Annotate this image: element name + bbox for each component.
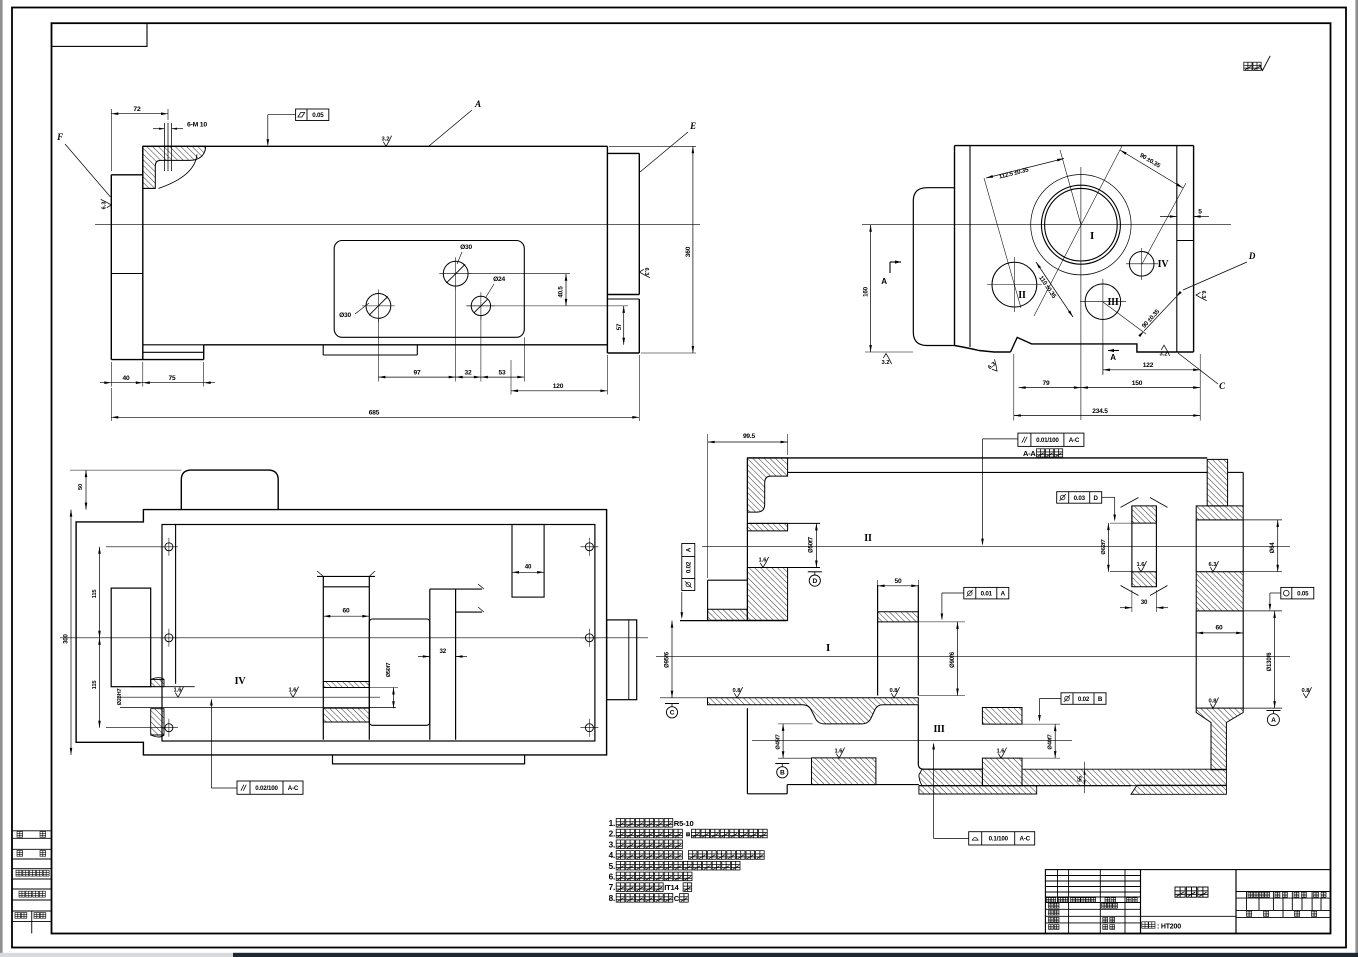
svg-text:Ø64: Ø64 (1270, 542, 1276, 554)
svg-text:8.: 8. (609, 894, 615, 903)
svg-text:1.: 1. (609, 819, 615, 828)
svg-text:Ø50f7: Ø50f7 (809, 536, 815, 553)
svg-text:A: A (1110, 353, 1116, 362)
svg-text:Ø45f7: Ø45f7 (776, 734, 782, 749)
svg-text:1.6: 1.6 (173, 687, 182, 693)
svg-text:0.03: 0.03 (1074, 495, 1086, 502)
svg-text:E: E (689, 121, 696, 131)
svg-text:32: 32 (465, 370, 472, 377)
svg-text:50: 50 (895, 578, 902, 585)
svg-text:40.5: 40.5 (558, 286, 565, 298)
svg-text:3.2: 3.2 (881, 360, 889, 366)
svg-text:6.3: 6.3 (1208, 562, 1217, 568)
svg-text:30: 30 (1141, 599, 1148, 606)
svg-text:6.3: 6.3 (643, 267, 649, 276)
svg-text:685: 685 (369, 410, 380, 417)
svg-text:150: 150 (1132, 380, 1143, 387)
svg-text:0.8: 0.8 (1208, 698, 1217, 704)
svg-text:40: 40 (525, 564, 532, 571)
svg-text:3.: 3. (609, 840, 615, 849)
svg-text:55: 55 (1078, 776, 1084, 782)
svg-text:7.: 7. (609, 883, 615, 892)
svg-text:F: F (56, 132, 63, 142)
svg-text:0.02: 0.02 (686, 561, 693, 573)
svg-text:0.02/100: 0.02/100 (255, 785, 278, 792)
svg-text:32: 32 (439, 648, 446, 655)
svg-text:Ø130f6: Ø130f6 (1267, 652, 1273, 672)
svg-text:1.6: 1.6 (834, 748, 843, 754)
svg-text:1.6: 1.6 (996, 748, 1005, 754)
svg-text:IT14: IT14 (664, 883, 679, 892)
svg-text:115: 115 (92, 589, 98, 599)
svg-text:Ø40f7: Ø40f7 (1048, 734, 1054, 749)
svg-text:A-A: A-A (1023, 449, 1036, 458)
svg-text:3.2: 3.2 (1159, 352, 1167, 358)
svg-text:0.05: 0.05 (312, 112, 324, 119)
svg-text:I: I (826, 642, 830, 654)
svg-text:53: 53 (499, 370, 506, 377)
svg-text:D: D (1248, 251, 1256, 261)
svg-text:2.: 2. (609, 830, 615, 839)
svg-text:300: 300 (64, 633, 70, 643)
svg-text:60: 60 (1216, 625, 1223, 632)
svg-text:72: 72 (133, 106, 141, 113)
svg-text:Ø28H7: Ø28H7 (117, 689, 123, 706)
svg-text:II: II (1018, 290, 1026, 301)
svg-text:Ø30: Ø30 (339, 312, 351, 319)
svg-text:III: III (933, 724, 944, 735)
svg-text:115: 115 (92, 680, 98, 690)
svg-text:A-C: A-C (1069, 437, 1080, 444)
svg-text:0.1/100: 0.1/100 (989, 836, 1009, 843)
svg-text:0.05: 0.05 (1297, 590, 1309, 597)
svg-text:0.02: 0.02 (1078, 696, 1090, 703)
svg-text:3.2: 3.2 (381, 137, 389, 143)
svg-text:6-M 10: 6-M 10 (187, 122, 207, 129)
svg-text:5: 5 (1198, 209, 1202, 216)
svg-text:97: 97 (414, 370, 421, 377)
svg-text:C: C (670, 710, 675, 717)
svg-text:6.3: 6.3 (1200, 290, 1206, 299)
svg-text:A-C: A-C (288, 785, 299, 792)
svg-text:A: A (474, 99, 481, 109)
svg-text:B: B (1098, 696, 1103, 703)
svg-text:360: 360 (685, 246, 692, 257)
svg-text:0.8: 0.8 (889, 688, 898, 694)
svg-text:C: C (674, 894, 680, 903)
svg-text:40: 40 (123, 375, 130, 382)
svg-text:5.: 5. (609, 862, 615, 871)
svg-text:II: II (864, 533, 872, 544)
svg-text:0.01: 0.01 (981, 590, 993, 597)
svg-text:6.: 6. (609, 873, 615, 882)
svg-text:0.01/100: 0.01/100 (1036, 437, 1059, 444)
svg-text:234.5: 234.5 (1092, 408, 1108, 415)
svg-text:A: A (1001, 590, 1006, 597)
svg-text:Ø62f7: Ø62f7 (1101, 539, 1107, 554)
svg-text:I: I (1090, 230, 1094, 242)
svg-text:Ø90f6: Ø90f6 (950, 651, 956, 668)
svg-text:1.6: 1.6 (1136, 562, 1145, 568)
svg-text:0.8: 0.8 (732, 688, 741, 694)
svg-text:122: 122 (1143, 362, 1154, 369)
svg-text:IV: IV (1158, 259, 1170, 270)
svg-text:: HT200: : HT200 (1157, 923, 1181, 930)
svg-text:A: A (1271, 717, 1276, 724)
svg-text:D: D (1094, 495, 1099, 502)
svg-text:57: 57 (616, 323, 623, 330)
svg-text:Ø50f7: Ø50f7 (386, 663, 392, 678)
svg-text:120: 120 (553, 383, 564, 390)
svg-text:A: A (881, 277, 887, 286)
svg-text:1.6: 1.6 (288, 687, 297, 693)
svg-text:Ø24: Ø24 (493, 276, 505, 283)
svg-text:4.: 4. (609, 851, 615, 860)
svg-text:50: 50 (78, 484, 84, 490)
svg-text:IV: IV (235, 676, 247, 687)
svg-text:Ø30: Ø30 (460, 244, 472, 251)
svg-text:99.5: 99.5 (743, 433, 756, 440)
svg-text:60: 60 (343, 608, 350, 615)
svg-text:A: A (686, 547, 693, 552)
svg-text:6.3: 6.3 (102, 201, 108, 210)
svg-text:A-C: A-C (1019, 836, 1030, 843)
svg-text:79: 79 (1043, 380, 1050, 387)
svg-text:B: B (780, 770, 785, 777)
svg-text:160: 160 (863, 286, 870, 296)
svg-text:D: D (813, 578, 818, 585)
svg-text:R5-10: R5-10 (674, 819, 694, 828)
svg-text:0.8: 0.8 (1301, 688, 1310, 694)
svg-text:1.6: 1.6 (758, 558, 767, 564)
svg-text:75: 75 (169, 375, 176, 382)
svg-text:Ø95f6: Ø95f6 (665, 651, 671, 668)
